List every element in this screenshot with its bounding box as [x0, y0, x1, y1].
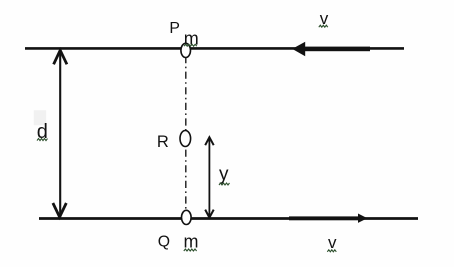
svg-text:y: y: [219, 164, 229, 185]
velocity arrow top (thick, pointing left): [292, 42, 370, 56]
svg-text:v: v: [328, 233, 337, 252]
squiggle under m top: [184, 44, 197, 46]
particle P ellipse: [181, 43, 191, 57]
svg-text:Q: Q: [158, 234, 170, 251]
distance arrow d (vertical double arrow): [53, 50, 67, 217]
gray artifact box above d: [34, 110, 46, 125]
svg-text:v: v: [320, 9, 329, 28]
particle R ellipse: [180, 131, 191, 147]
squiggle under m bottom: [184, 249, 197, 251]
svg-text:R: R: [157, 133, 169, 151]
particle Q ellipse: [182, 210, 192, 224]
svg-text:P: P: [169, 20, 180, 37]
bottom wire: [39, 217, 418, 220]
squiggle under d: [37, 139, 48, 141]
squiggle under v top: [319, 25, 328, 27]
squiggle under v bottom: [327, 250, 336, 252]
squiggle under y: [219, 183, 230, 185]
distance arrow y (vertical double arrow): [205, 137, 214, 217]
top wire: [25, 47, 404, 50]
velocity arrow bottom (thick, pointing right): [289, 214, 367, 223]
dash-dot center line: [185, 56, 187, 212]
